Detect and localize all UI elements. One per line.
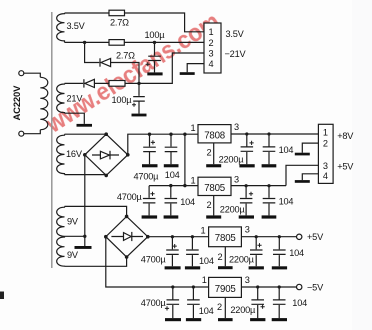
- svg-text:100µ: 100µ: [112, 95, 133, 105]
- svg-text:1: 1: [202, 275, 207, 285]
- 21V bottom to ground: [65, 113, 85, 124]
- svg-text:16V: 16V: [66, 149, 83, 159]
- resistor R2 2.7ohm: [109, 40, 124, 46]
- wire bridge1 left corner down to center-tap ground: [84, 155, 86, 237]
- ground: [165, 318, 181, 321]
- svg-text:104: 104: [199, 306, 214, 316]
- primary terminal top: [19, 71, 24, 76]
- svg-text:2: 2: [209, 38, 214, 48]
- transformer primary winding: [24, 73, 48, 134]
- capacitor 4700u #1: [134, 134, 160, 181]
- 16V bottom wire to bridge1 bottom: [65, 174, 107, 176]
- 9V a top wire to bridge2: [65, 206, 127, 216]
- ground: [186, 318, 201, 321]
- bridge rectifier B2: [104, 215, 150, 259]
- svg-text:104: 104: [279, 145, 294, 155]
- svg-text:104: 104: [279, 197, 294, 207]
- ground: [239, 164, 254, 167]
- ground: [272, 318, 287, 321]
- secondary winding 21V: [57, 83, 65, 113]
- diode D2: [84, 79, 95, 87]
- ground: [147, 72, 162, 75]
- svg-text:104: 104: [289, 248, 304, 258]
- rail2: [149, 185, 198, 187]
- 7808 output rail to conn2 pin1: [231, 133, 318, 135]
- svg-text:21V: 21V: [67, 94, 84, 104]
- svg-text:−21V: −21V: [225, 49, 247, 59]
- capacitor 2200u #3: [229, 237, 264, 270]
- svg-text:AC220V: AC220V: [12, 85, 23, 121]
- primary terminal bottom: [19, 131, 24, 136]
- svg-text:3: 3: [209, 48, 214, 58]
- ground: [249, 266, 264, 269]
- svg-text:104: 104: [292, 298, 307, 308]
- svg-text:3: 3: [323, 161, 328, 171]
- ground: [142, 164, 158, 167]
- wire row A: 3.5V top to R1 to conn1 pin1: [65, 13, 205, 32]
- capacitor 104 #8: [272, 287, 307, 321]
- watermark www.elecfans.com: [40, 7, 224, 139]
- 9V b bottom wire to bridge2: [65, 257, 127, 266]
- svg-text:7805: 7805: [215, 233, 236, 244]
- capacitor 104 #4: [262, 186, 294, 219]
- resistor R1 2.7ohm: [109, 10, 125, 16]
- svg-text:3.5V: 3.5V: [67, 21, 86, 31]
- node: cap junction row B: [153, 41, 156, 44]
- ground: [250, 318, 265, 321]
- ground for conn1 pin4: [187, 64, 204, 73]
- capacitor 4700u #2: [117, 186, 157, 219]
- ground: [206, 164, 221, 167]
- svg-text:3: 3: [245, 275, 250, 285]
- capacitor 2200u #4: [230, 287, 265, 321]
- ground: [262, 215, 277, 218]
- bridge rectifier B1: [83, 132, 130, 177]
- ground: [218, 266, 233, 269]
- svg-text:3: 3: [234, 122, 239, 132]
- svg-text:4700µ: 4700µ: [134, 172, 160, 182]
- svg-text:4700µ: 4700µ: [117, 192, 143, 202]
- capacitor 104 #5: [185, 237, 214, 270]
- ground 21V: [77, 124, 93, 127]
- regulator U3 7805: [201, 225, 250, 270]
- svg-text:1: 1: [201, 226, 206, 236]
- svg-text:2200µ: 2200µ: [220, 204, 246, 214]
- secondary winding 9V b: [57, 236, 65, 266]
- diode D1: [100, 58, 111, 66]
- svg-text:2: 2: [207, 148, 212, 158]
- svg-text:+5V: +5V: [337, 162, 354, 172]
- regulator U4 7905: [202, 275, 250, 321]
- svg-text:7808: 7808: [204, 131, 225, 142]
- secondary winding 3.5V: [57, 13, 65, 42]
- svg-text:4: 4: [209, 59, 214, 69]
- svg-text:7905: 7905: [215, 284, 236, 295]
- wire row C with diode D1: [85, 42, 139, 83]
- svg-text:104: 104: [165, 170, 180, 180]
- capacitor 100u #2: [112, 83, 147, 116]
- wire row D: 21V top, D2, R3, to conn1 pin3: [65, 53, 205, 83]
- svg-text:+8V: +8V: [337, 131, 354, 141]
- capacitor 4700u #4: [141, 287, 181, 321]
- svg-text:1: 1: [191, 176, 196, 186]
- 9V center tap wire: [65, 235, 85, 237]
- wire row B: 3.5V bottom to R2 to conn1 pin2: [65, 41, 205, 43]
- output terminal +5V: [297, 234, 302, 239]
- ground: [218, 318, 233, 321]
- svg-text:+5V: +5V: [307, 232, 324, 242]
- svg-text:4700µ: 4700µ: [141, 254, 167, 264]
- svg-text:104: 104: [199, 256, 214, 266]
- svg-text:1: 1: [209, 27, 214, 37]
- secondary winding 16V: [57, 134, 65, 174]
- node center tap: [83, 235, 86, 238]
- capacitor 100u #1: [145, 30, 166, 75]
- +5V rail from bridge2 right: [148, 236, 296, 238]
- conn2 pin4 ground: [302, 174, 318, 180]
- svg-text:1: 1: [191, 123, 196, 133]
- capacitor 4700u #3: [141, 237, 181, 270]
- capacitor 104 #1: [164, 134, 180, 180]
- scan edge shading: [352, 0, 372, 330]
- ground: [239, 215, 254, 218]
- svg-text:2.7Ω: 2.7Ω: [110, 18, 129, 28]
- ground: [272, 266, 287, 269]
- svg-text:7805: 7805: [204, 183, 225, 194]
- svg-text:9V: 9V: [67, 250, 79, 260]
- ground: [164, 164, 179, 167]
- svg-text:3: 3: [234, 175, 239, 185]
- ground: [262, 164, 277, 167]
- svg-text:2: 2: [323, 139, 328, 149]
- regulator U2 7805: [191, 175, 240, 219]
- capacitor 104 #7: [186, 287, 214, 321]
- svg-text:4: 4: [323, 171, 328, 181]
- ground center tap: [84, 236, 86, 246]
- capacitor 2200u #2: [220, 186, 254, 219]
- resistor R3: [109, 81, 125, 87]
- svg-text:2200µ: 2200µ: [230, 305, 256, 315]
- svg-text:2: 2: [207, 200, 212, 210]
- connector J1: [204, 23, 221, 73]
- capacitor 104 #3: [262, 134, 294, 167]
- svg-text:4700µ: 4700µ: [141, 298, 167, 308]
- secondary winding 9V a: [57, 206, 65, 236]
- output terminal -5V: [297, 284, 302, 289]
- node: junction 3.5V bottom: [83, 41, 86, 44]
- svg-text:2: 2: [218, 252, 223, 262]
- svg-text:3: 3: [245, 225, 250, 235]
- ground: [185, 266, 200, 269]
- 7805 output rail to conn2 pin3: [231, 165, 318, 185]
- transformer core: [51, 12, 53, 268]
- ground: [165, 266, 181, 269]
- svg-text:9V: 9V: [67, 217, 79, 227]
- 16V top wire to bridge1: [65, 133, 107, 135]
- capacitor 104 #6: [272, 237, 304, 270]
- ground: [132, 114, 147, 117]
- regulator U1 7808: [191, 122, 240, 167]
- branch rail1 to rail2: [184, 134, 186, 185]
- capacitor 2200u #1: [219, 134, 255, 167]
- capacitor 104 #2: [164, 186, 195, 219]
- conn2 pin2 ground: [302, 143, 318, 153]
- svg-text:104: 104: [180, 197, 195, 207]
- svg-text:−5V: −5V: [307, 283, 324, 293]
- svg-text:2200µ: 2200µ: [219, 154, 245, 164]
- svg-text:2200µ: 2200µ: [229, 255, 255, 265]
- -5V rail from bridge2 left: [106, 237, 296, 287]
- left edge mark: [0, 292, 4, 300]
- ground: [142, 215, 158, 218]
- svg-text:100µ: 100µ: [145, 30, 166, 40]
- svg-text:2.7Ω: 2.7Ω: [116, 51, 135, 61]
- ground: [206, 215, 221, 218]
- connector J2: [318, 124, 333, 183]
- svg-text:3.5V: 3.5V: [226, 29, 245, 39]
- svg-text:2: 2: [217, 302, 222, 312]
- node: -21V junction: [137, 82, 140, 85]
- ground: [164, 215, 179, 218]
- wire bridge1 right corner up to rail1: [128, 134, 198, 155]
- svg-text:1: 1: [323, 128, 328, 138]
